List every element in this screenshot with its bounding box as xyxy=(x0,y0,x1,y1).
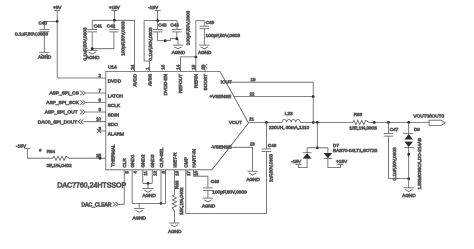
svg-text:AGND: AGND xyxy=(198,50,212,55)
wire +15V rail to AVDD pin 24 xyxy=(92,20,134,71)
svg-text:L23: L23 xyxy=(285,111,293,116)
svg-text:LATCH: LATCH xyxy=(108,94,123,99)
svg-text:C48: C48 xyxy=(211,179,220,184)
svg-text:100pF,50V,0603: 100pF,50V,0603 xyxy=(206,33,241,39)
capacitor C43 0.1uF,50V,0603 xyxy=(148,21,167,61)
svg-text:SCLK: SCLK xyxy=(108,103,121,108)
ground AGND (GND2/GND3) xyxy=(142,183,156,198)
svg-text:0.1uF,50V,0603: 0.1uF,50V,0603 xyxy=(392,147,398,180)
junction D7 tap xyxy=(316,121,319,124)
svg-text:CMP: CMP xyxy=(184,157,189,167)
svg-text:GND2: GND2 xyxy=(141,154,146,167)
wire +5V to DVDD pin 2 xyxy=(57,21,106,78)
ground AGND (C43/C44) xyxy=(172,39,186,56)
svg-text:10: 10 xyxy=(96,117,101,122)
signal ASP_SPI_OUT to SDIN pin 9 xyxy=(45,110,106,116)
wire ISET-R to R66 xyxy=(173,170,175,195)
signal ASP_SPI_SCK to SCLK pin 8 xyxy=(46,100,106,106)
svg-text:C43: C43 xyxy=(158,22,167,27)
wire R66 to ground xyxy=(173,211,175,223)
svg-text:AVSS: AVSS xyxy=(147,74,152,86)
resistor R64 0E,1%,0402 xyxy=(39,149,72,168)
svg-text:ASP_SPI_SCK: ASP_SPI_SCK xyxy=(46,100,79,106)
ground AGND (C45) xyxy=(198,45,212,55)
wire GND2-GND3 tie xyxy=(143,182,152,184)
svg-text:REFOUT: REFOUT xyxy=(178,74,183,93)
wire -15V rail xyxy=(144,20,177,22)
svg-text:+VSENSE: +VSENSE xyxy=(210,94,232,99)
wire step to C44 bottom xyxy=(165,39,178,41)
wire +5V rail xyxy=(44,20,57,22)
wire HART-IN to C48 xyxy=(194,170,208,188)
signal DAC_CLEAR to CLR pin 5 xyxy=(81,170,124,209)
svg-text:AGND: AGND xyxy=(202,203,216,208)
wire VOUT line to D7 xyxy=(316,122,318,147)
svg-text:+15V: +15V xyxy=(336,159,348,164)
inductor L23 220UH, 80mA,1210 xyxy=(269,111,310,130)
svg-text:ASP_SPI_CS: ASP_SPI_CS xyxy=(49,91,78,97)
svg-text:DVDD: DVDD xyxy=(108,79,122,84)
svg-text:25: 25 xyxy=(96,153,101,158)
resistor R63 10E,1%,0805 xyxy=(349,112,377,130)
svg-text:GND3: GND3 xyxy=(150,154,155,167)
power -15V (top) xyxy=(148,5,160,21)
svg-text:15K,1%,0402: 15K,1%,0402 xyxy=(179,187,184,215)
svg-text:17: 17 xyxy=(186,170,191,175)
ground AGND (R66) xyxy=(168,223,182,234)
power +5V xyxy=(53,5,62,21)
junction C47/D9 ground xyxy=(407,177,410,180)
junction GND2/GND3 xyxy=(147,182,150,185)
wire -VSENSE to ground xyxy=(229,147,253,171)
wire REFOUT to REFIN tie xyxy=(180,57,196,72)
svg-text:R63: R63 xyxy=(354,112,363,117)
ground AGND (C40) xyxy=(38,52,52,59)
junction D9 lower xyxy=(407,153,410,156)
capacitor C44 100pF,50V,0603 xyxy=(170,10,191,45)
svg-text:ISET-R: ISET-R xyxy=(172,152,177,168)
wire REFIN up to C45 xyxy=(196,21,204,72)
wire C47 to D9 ground xyxy=(388,178,408,180)
capacitor C47 0.1uF,50V,0603 xyxy=(384,122,399,180)
svg-text:ASP_SPI_OUT: ASP_SPI_OUT xyxy=(45,110,78,116)
svg-text:VOUT: VOUT xyxy=(229,120,242,125)
node VOUT0/IOUT0 output connector xyxy=(413,113,445,125)
svg-text:100pF,50V,0603: 100pF,50V,0603 xyxy=(185,10,191,45)
svg-text:-15V: -15V xyxy=(291,159,302,164)
svg-text:CLR: CLR xyxy=(122,158,127,168)
junction CLR-SEL bus xyxy=(160,202,163,205)
ground AGND (C41/C42) xyxy=(86,50,100,60)
svg-text:CLR-SEL: CLR-SEL xyxy=(159,147,164,167)
svg-text:DAC_CLEAR: DAC_CLEAR xyxy=(81,203,111,209)
wire ground bus xyxy=(132,170,166,204)
svg-text:220UH, 80mA,1210: 220UH, 80mA,1210 xyxy=(269,125,310,130)
capacitor C42 100pF,50V,0603 xyxy=(107,20,127,56)
svg-text:C41: C41 xyxy=(94,24,103,29)
wire GND3 down xyxy=(151,170,153,184)
svg-text:SDIN: SDIN xyxy=(108,113,119,118)
junction +5V node xyxy=(56,20,59,23)
svg-text:ALARM: ALARM xyxy=(108,132,124,137)
junction REFIN node xyxy=(195,56,198,59)
svg-text:DAC7760,24HTSSOP: DAC7760,24HTSSOP xyxy=(57,182,126,189)
svg-text:DVDD-EN: DVDD-EN xyxy=(163,74,168,95)
junction D9 top xyxy=(407,121,410,124)
svg-text:0E,1%,0402: 0E,1%,0402 xyxy=(47,163,72,168)
svg-text:C40: C40 xyxy=(38,21,47,26)
svg-text:C42: C42 xyxy=(107,24,116,29)
svg-text:AGND: AGND xyxy=(86,55,100,60)
svg-text:THERMAL: THERMAL xyxy=(110,144,115,167)
svg-text:REFIN: REFIN xyxy=(194,74,199,88)
wire C42 to C41 bottom xyxy=(92,48,114,50)
ground AGND (-VSENSE) xyxy=(246,171,260,182)
ground AGND (bus) xyxy=(133,203,147,220)
junction D7 node xyxy=(316,146,319,149)
wire CMP to C46 bottom xyxy=(186,152,267,214)
svg-text:-VSENSE: -VSENSE xyxy=(211,145,232,150)
wire C43 bottom to DVDD-EN xyxy=(158,40,166,42)
svg-text:AVDD: AVDD xyxy=(132,73,137,86)
svg-text:U14: U14 xyxy=(108,65,117,71)
junction R63 output xyxy=(373,121,376,124)
svg-text:AGND: AGND xyxy=(168,229,182,234)
op-amp U14 DAC7760 outline xyxy=(106,65,249,170)
svg-text:19: 19 xyxy=(251,77,256,82)
svg-text:0.1uF,50V,0603: 0.1uF,50V,0603 xyxy=(148,27,154,60)
svg-text:DAC0_SPI_DOUT: DAC0_SPI_DOUT xyxy=(38,119,78,125)
svg-text:14: 14 xyxy=(176,64,181,69)
wire GND1 to ground bus xyxy=(131,170,133,204)
svg-text:21: 21 xyxy=(249,117,254,122)
junction C47 top xyxy=(387,121,390,124)
wire -15V to R64 xyxy=(27,157,53,159)
junction C46 top xyxy=(265,121,268,124)
wire CLR-SEL to ground bus xyxy=(160,170,162,204)
svg-text:13: 13 xyxy=(175,170,180,175)
junction C44 bottom xyxy=(175,37,178,40)
svg-text:22: 22 xyxy=(250,91,255,96)
svg-text:AGND: AGND xyxy=(142,193,156,198)
svg-text:1nF,50V,0603: 1nF,50V,0603 xyxy=(268,154,273,182)
junction +15V node xyxy=(113,19,116,22)
diode D9 1.5SMC36CA,DO-214AB xyxy=(403,122,422,189)
capacitor C40 0.1uF,50V,0603 xyxy=(15,21,49,52)
wire GND2 down xyxy=(142,170,144,184)
svg-text:11: 11 xyxy=(143,170,148,175)
svg-text:12: 12 xyxy=(152,170,157,175)
svg-text:C47: C47 xyxy=(390,127,399,132)
junction THERMAL pin xyxy=(99,157,102,160)
svg-text:100pF,50V,0603: 100pF,50V,0603 xyxy=(120,21,126,56)
svg-text:23: 23 xyxy=(250,142,255,147)
resistor R66 15K,1%,0402 xyxy=(172,180,184,215)
ground AGND (C48) xyxy=(202,198,216,208)
ground AGND (C47/D9) xyxy=(402,188,416,198)
svg-text:+5V: +5V xyxy=(53,5,62,10)
junction -15V node xyxy=(156,19,159,22)
svg-text:1.5SMC36CA,DO-214AB: 1.5SMC36CA,DO-214AB xyxy=(417,138,422,190)
capacitor C41 0.1uF,50V,0603 xyxy=(83,20,103,60)
no-connect X on BOOST pin 20 xyxy=(203,64,208,71)
junction IOUT/+VSENSE xyxy=(312,95,315,98)
svg-text:+15V: +15V xyxy=(109,5,121,10)
wire IOUT xyxy=(226,82,314,122)
svg-text:AGND: AGND xyxy=(38,54,52,59)
svg-text:18: 18 xyxy=(194,170,199,175)
svg-text:C45: C45 xyxy=(206,20,215,25)
svg-text:HART-IN: HART-IN xyxy=(191,149,196,168)
capacitor C46 1nF,50V,0603 xyxy=(262,122,277,182)
wire +VSENSE xyxy=(233,96,313,98)
svg-text:C46: C46 xyxy=(268,143,277,148)
no-connect X on ALARM pin 3 xyxy=(97,129,106,134)
signal ASP_SPI_CS to LATCH pin 7 xyxy=(49,91,105,97)
junction at VOUT line xyxy=(312,121,315,124)
svg-text:100pF,50V,0603: 100pF,50V,0603 xyxy=(212,190,247,196)
svg-text:AGND: AGND xyxy=(172,50,186,55)
capacitor C48 100pF,50V,0603 xyxy=(203,179,247,198)
diode D7 BAS70-04LT1,SOT23 xyxy=(303,143,378,158)
svg-text:D9: D9 xyxy=(414,127,420,132)
svg-text:GND1: GND1 xyxy=(130,154,135,167)
svg-text:C44: C44 xyxy=(170,22,179,27)
svg-text:16: 16 xyxy=(161,64,166,69)
svg-text:R64: R64 xyxy=(47,149,56,154)
wire VOUT to L23 xyxy=(249,121,283,123)
svg-text:-15V: -15V xyxy=(148,5,159,10)
svg-text:10E,1%,0805: 10E,1%,0805 xyxy=(349,125,377,130)
junction DVDD-EN node xyxy=(164,39,167,42)
capacitor C45 100pF,50V,0603 xyxy=(200,20,241,45)
svg-text:SDO: SDO xyxy=(108,122,119,127)
svg-text:BAS70-04LT1,SOT23: BAS70-04LT1,SOT23 xyxy=(333,148,378,153)
power +15V xyxy=(109,5,121,20)
svg-text:AGND: AGND xyxy=(133,215,147,220)
power -15V (D7) xyxy=(291,159,307,168)
svg-text:-15V: -15V xyxy=(16,143,27,148)
svg-text:AGND: AGND xyxy=(246,177,260,182)
svg-text:15: 15 xyxy=(191,64,196,69)
svg-text:VOUT0/IOUT0: VOUT0/IOUT0 xyxy=(413,113,444,118)
signal DAC0_SPI_DOUT to SDO pin 10 xyxy=(38,119,106,125)
wire R63 to output xyxy=(369,121,430,123)
svg-text:BOOST: BOOST xyxy=(203,74,208,91)
power -15V (left) xyxy=(16,143,30,158)
svg-text:24: 24 xyxy=(130,64,135,69)
svg-text:0.1uF,50V,0603: 0.1uF,50V,0603 xyxy=(15,32,48,38)
wire L23 to R63 xyxy=(300,121,353,123)
wire D7 common cathode xyxy=(307,147,328,149)
wire R64 to THERMAL pin 25 xyxy=(69,157,106,159)
svg-text:AGND: AGND xyxy=(402,193,416,198)
power +15V (D7) xyxy=(328,159,348,168)
wire -15V to AVSS pin 1 xyxy=(144,21,149,72)
junction C41 bottom xyxy=(91,47,94,50)
